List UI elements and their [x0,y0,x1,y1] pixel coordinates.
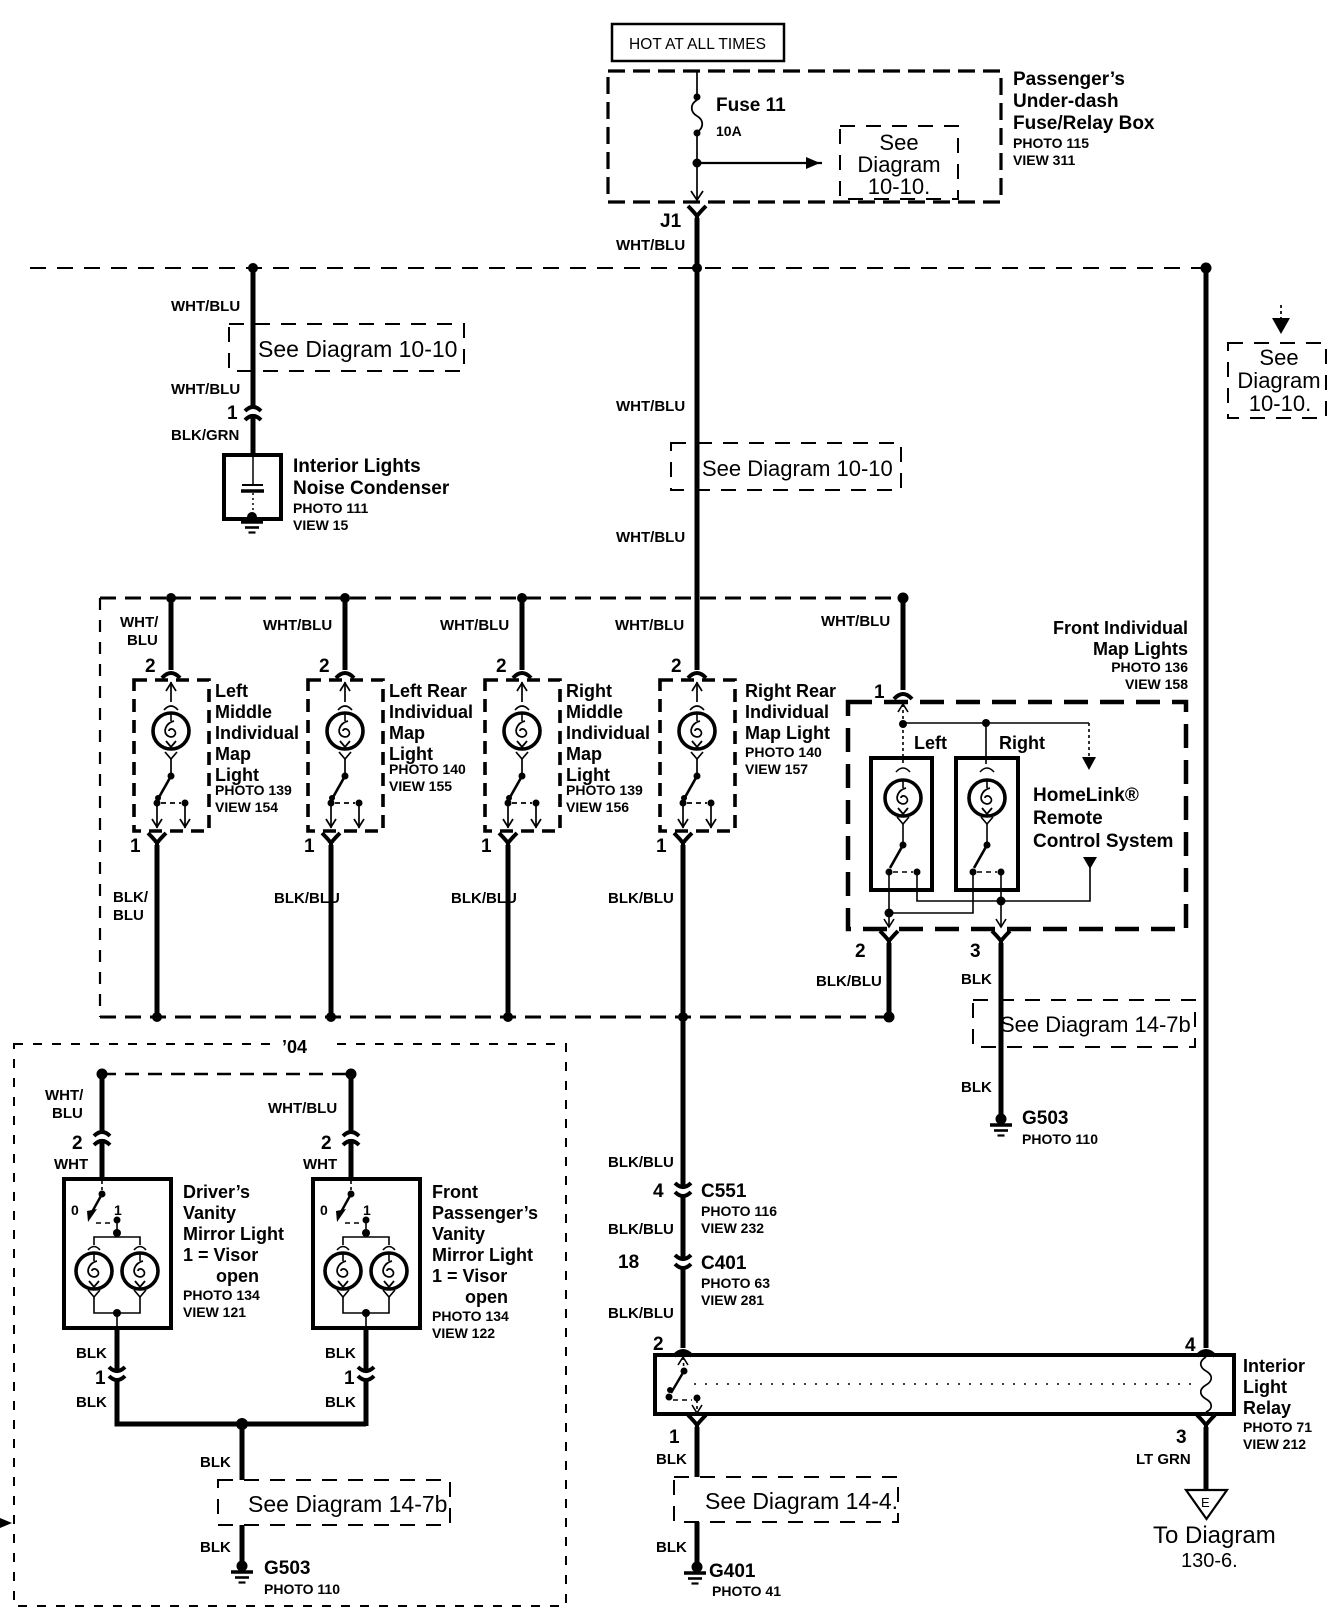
interior lights noise condenser C box [224,455,281,519]
svg-text:WHT/BLU: WHT/BLU [616,237,685,254]
svg-text:PHOTO 63: PHOTO 63 [701,1275,770,1291]
svg-text:Left Rear: Left Rear [389,681,467,701]
svg-text:Right: Right [566,681,612,701]
right rear map light caption [745,681,836,777]
wire WHT/BLU to passenger vanity [349,1074,354,1130]
wire BLK from driver vanity [115,1328,120,1369]
svg-text:VIEW 158: VIEW 158 [1125,676,1188,692]
svg-text:Interior: Interior [1243,1356,1305,1376]
svg-text:See Diagram 10-10: See Diagram 10-10 [702,456,893,481]
node joining lamp commons [885,909,894,918]
connector pin 2 left rear map light [336,673,354,678]
svg-text:Right Rear: Right Rear [745,681,836,701]
svg-text:Right: Right [999,733,1045,753]
node below lamps [362,1309,370,1317]
svg-text:2: 2 [72,1133,83,1154]
svg-text:WHT: WHT [54,1156,88,1173]
node to right lamp [982,719,990,727]
svg-text:BLK/BLU: BLK/BLU [451,890,517,907]
arrowhead at pin 2 exit [884,919,894,927]
left lamp internals [896,724,910,845]
node above lamps [113,1229,121,1237]
svg-text:To Diagram: To Diagram [1153,1522,1276,1549]
svg-text:See Diagram 14-7b: See Diagram 14-7b [1000,1012,1191,1037]
svg-text:PHOTO 111: PHOTO 111 [293,500,368,516]
passenger vanity caption [432,1182,538,1341]
'04 label (white backing) [276,1030,330,1058]
svg-text:4: 4 [653,1181,664,1202]
svg-text:See: See [1259,345,1298,370]
Driver's vanity mirror light box [64,1179,171,1328]
arrow into right See Diagram box [1272,305,1290,334]
svg-text:PHOTO 116: PHOTO 116 [701,1203,777,1219]
wire WHT/BLU to front map lights [901,598,906,690]
wire BLK/BLU from pin 2 to bus [887,943,892,1017]
svg-text:Left: Left [914,733,947,753]
svg-text:Middle: Middle [215,702,272,722]
svg-text:1: 1 [363,1202,371,1218]
horizontal dashed bus at y=268 [30,267,1206,269]
See Diagram 14-7b reference (HomeLink ground) [973,1000,1195,1047]
junction node center [692,263,702,273]
wire BLK from relay pin 1 [695,1427,700,1477]
svg-text:Individual: Individual [566,723,650,743]
svg-text:Front Individual: Front Individual [1053,618,1188,638]
wire down to ground bus [364,1379,369,1426]
G503 label [1022,1108,1098,1147]
svg-text:Relay: Relay [1243,1398,1291,1418]
node driver vanity tap [97,1069,108,1080]
svg-text:BLK: BLK [76,1345,107,1362]
svg-text:BLK/BLU: BLK/BLU [608,1305,674,1322]
relay coil [1201,1357,1212,1412]
svg-text:4: 4 [1185,1335,1196,1356]
wire BLK/BLU between C551 and C401 [681,1195,686,1257]
svg-text:WHT/BLU: WHT/BLU [440,617,509,634]
svg-text:WHT/BLU: WHT/BLU [616,398,685,415]
pin 1 connector left middle map light [148,833,166,849]
svg-text:PHOTO 115: PHOTO 115 [1013,135,1089,151]
svg-text:Interior Lights: Interior Lights [293,456,421,477]
svg-text:Individual: Individual [215,723,299,743]
svg-text:BLK/BLU: BLK/BLU [608,1154,674,1171]
svg-text:PHOTO 140: PHOTO 140 [745,744,822,760]
svg-text:3: 3 [1176,1427,1187,1448]
wire: right lamp switched to pin 3 [996,872,1006,927]
wire: left lamp switched to control [917,867,1090,901]
svg-text:2: 2 [321,1133,332,1154]
svg-text:Map: Map [389,723,425,743]
svg-text:1: 1 [114,1202,122,1218]
relay internal dotted link [694,1383,1197,1385]
Front Individual Map Lights caption [1053,618,1188,692]
svg-text:C551: C551 [701,1181,747,1202]
svg-text:Mirror Light: Mirror Light [432,1245,533,1265]
junction node left branch [248,263,258,273]
svg-text:See Diagram 14-7b: See Diagram 14-7b [248,1491,447,1517]
wire BLK/BLU from right middle map light [506,845,511,1017]
svg-text:VIEW 212: VIEW 212 [1243,1436,1306,1452]
svg-text:Driver’s: Driver’s [183,1182,250,1202]
node: left rear map light tap [340,593,350,603]
ground G401 [684,1562,706,1584]
left branch wire down to connector 1 [251,268,256,406]
svg-text:G401: G401 [709,1561,756,1582]
fuse 11 value label [716,95,786,139]
svg-text:Vanity: Vanity [432,1224,485,1244]
svg-text:VIEW 156: VIEW 156 [566,799,629,815]
svg-text:Individual: Individual [389,702,473,722]
svg-text:WHT/BLU: WHT/BLU [268,1100,337,1117]
connector pin 1 passenger vanity [358,1367,374,1380]
svg-text:1: 1 [874,682,885,703]
svg-text:2: 2 [319,656,330,677]
lamp: Right Middle Individual Map Light [485,680,560,831]
svg-text:PHOTO 110: PHOTO 110 [264,1581,340,1597]
pin 1 connector left rear map light [322,833,340,849]
svg-text:BLK: BLK [961,971,992,988]
svg-text:LT GRN: LT GRN [1136,1451,1191,1468]
connector pin 3 HomeLink [992,931,1010,947]
svg-text:BLK/: BLK/ [113,889,149,906]
svg-text:BLK: BLK [325,1345,356,1362]
See Diagram 10-10 reference (right) [1228,343,1326,418]
svg-text:WHT: WHT [303,1156,337,1173]
svg-text:1 = Visor: 1 = Visor [183,1245,258,1265]
svg-text:1: 1 [130,836,141,857]
relay switch [666,1368,703,1414]
svg-text:1: 1 [481,836,492,857]
connector pin 2 passenger vanity [343,1132,359,1145]
connector pin 2 left middle map light [162,673,180,678]
svg-text:Remote: Remote [1033,808,1103,829]
svg-text:1: 1 [669,1427,680,1448]
wire BLK/BLU from left middle map light [155,845,160,1017]
interior light relay box [655,1355,1234,1414]
wire: left lamp common to pin 2 [888,872,890,926]
See Diagram 10-10 reference (left branch) [229,324,464,371]
pin 1 connector right middle map light [499,833,517,849]
node: right middle map light tap [517,593,527,603]
wire BLK from pin 3 [999,943,1004,1118]
noise condenser caption [293,456,450,533]
svg-text:2: 2 [145,656,156,677]
pin 1 connector right rear map light [674,833,692,849]
node passenger vanity tap [346,1069,357,1080]
svg-text:Front: Front [432,1182,478,1202]
svg-text:PHOTO 71: PHOTO 71 [1243,1419,1312,1435]
svg-text:Light: Light [1243,1377,1287,1397]
connector pin 2 HomeLink [880,931,898,947]
svg-text:Map Lights: Map Lights [1093,639,1188,659]
wire into passenger vanity [349,1139,354,1180]
connector relay pin 1 [688,1415,706,1431]
right lamp bulb [969,780,1005,816]
node pin2 on bottom bus [884,1012,895,1023]
driver vanity caption [183,1182,284,1320]
svg-text:WHT/BLU: WHT/BLU [171,298,240,315]
passenger vanity switch [320,1181,371,1224]
connector C401 [675,1255,691,1268]
right lamp switch [970,842,1005,876]
junction on fuse output [693,159,702,168]
ground G503 (vanity) [231,1561,253,1583]
svg-text:WHT/: WHT/ [45,1087,84,1104]
control return arrow [1083,857,1097,869]
page edge arrow marker [0,1518,12,1528]
G503 vanity label [264,1558,340,1597]
right branch main wire [1204,268,1209,1348]
passenger vanity lamp pair wiring [337,1220,395,1328]
svg-text:WHT/BLU: WHT/BLU [615,617,684,634]
svg-text:Vanity: Vanity [183,1203,236,1223]
wire BLK to G401 [695,1522,700,1566]
svg-text:WHT/: WHT/ [120,614,159,631]
capacitor element inside condenser [241,457,264,515]
map lights dashed enclosure (top edge) [100,597,903,600]
wire arrow to See Diagram 10-10 [697,157,822,169]
svg-text:open: open [465,1287,508,1307]
node below lamps [113,1309,121,1317]
wire into driver vanity [100,1139,105,1180]
wire BLK/BLU from right rear map light down [681,845,686,1185]
dotted drop with arrow to control [1082,723,1096,770]
svg-text:BLU: BLU [113,907,144,924]
right lamp internals [980,723,994,845]
svg-text:VIEW 15: VIEW 15 [293,517,348,533]
lamp: Right Rear Individual Map Light [660,680,735,831]
svg-text:2: 2 [671,656,682,677]
svg-text:1: 1 [227,403,238,424]
svg-text:Map: Map [566,744,602,764]
wire from fuse to box bottom with arrow [691,133,703,200]
fuse/relay box caption [1013,69,1155,168]
svg-text:PHOTO 134: PHOTO 134 [183,1287,260,1303]
driver vanity bulb left [76,1253,112,1289]
svg-text:See Diagram 14-4.: See Diagram 14-4. [705,1488,898,1514]
See Diagram 10-10 reference (inside fuse box) [840,126,958,199]
connector J1 [688,206,706,222]
fuse 11 element [692,94,703,137]
svg-text:BLK: BLK [656,1539,687,1556]
connector relay pin 2 [674,1351,692,1356]
'04 model dashed enclosure [14,1044,566,1606]
node on bottom bus (right rear) [678,1012,688,1022]
svg-text:Middle: Middle [566,702,623,722]
svg-text:J1: J1 [660,211,682,232]
wire WHT/BLU to driver vanity [100,1074,105,1130]
svg-text:VIEW 154: VIEW 154 [215,799,278,815]
connector relay pin 4 [1197,1351,1215,1356]
node: front map lights tap [898,593,909,604]
svg-text:’04: ’04 [282,1037,307,1057]
left lamp bulb [885,780,921,816]
svg-text:VIEW 281: VIEW 281 [701,1292,764,1308]
svg-text:PHOTO 140: PHOTO 140 [389,761,466,777]
svg-text:PHOTO 41: PHOTO 41 [712,1583,781,1599]
C401 caption [701,1253,770,1308]
node where right lamp switched line crosses [997,897,1006,906]
svg-text:2: 2 [653,1334,664,1355]
wire WHT/BLU to right rear map light [695,598,700,670]
svg-text:C401: C401 [701,1253,747,1274]
svg-text:VIEW 155: VIEW 155 [389,778,452,794]
HomeLink left lamp unit box [871,758,932,890]
svg-text:2: 2 [855,941,866,962]
svg-text:1: 1 [95,1368,106,1389]
svg-text:1: 1 [656,836,667,857]
driver vanity lamp pair wiring [88,1220,146,1328]
svg-text:BLU: BLU [52,1105,83,1122]
left middle map light caption [215,681,299,815]
vanity feed dashed bus [102,1073,351,1076]
svg-text:VIEW 157: VIEW 157 [745,761,808,777]
junction node right branch [1201,263,1212,274]
svg-text:VIEW 121: VIEW 121 [183,1304,246,1320]
svg-text:See Diagram 10-10: See Diagram 10-10 [258,336,457,362]
wire BLK to vanity ground [240,1424,245,1480]
wire BLK below reference [240,1525,245,1564]
wire label WHT/ BLU [120,614,159,649]
svg-text:Left: Left [215,681,248,701]
svg-text:Under-dash: Under-dash [1013,91,1119,112]
svg-text:WHT/BLU: WHT/BLU [263,617,332,634]
svg-text:1 = Visor: 1 = Visor [432,1266,507,1286]
svg-text:WHT/BLU: WHT/BLU [821,613,890,630]
svg-text:BLK/BLU: BLK/BLU [608,890,674,907]
svg-text:Control System: Control System [1033,831,1173,852]
svg-text:VIEW 311: VIEW 311 [1013,152,1075,168]
wire WHT/BLU to left rear map light [343,598,348,670]
svg-text:PHOTO 110: PHOTO 110 [1022,1131,1098,1147]
condenser ground [241,512,263,533]
svg-text:Map Light: Map Light [745,723,830,743]
svg-text:Passenger’s: Passenger’s [1013,69,1125,90]
svg-text:1: 1 [304,836,315,857]
svg-text:HOT AT ALL TIMES: HOT AT ALL TIMES [629,36,766,53]
inline connector pin 1 (noise condenser) [245,407,261,420]
HomeLink caption [1033,785,1173,852]
C551 caption [701,1181,777,1236]
Passenger's Under-dash Fuse/Relay Box (dashed enclosure) [608,71,1001,202]
wire BLK/BLU from left rear map light [329,845,334,1017]
node on bottom bus [326,1012,336,1022]
fuse F11 feed wire [696,72,698,97]
svg-text:1: 1 [344,1368,355,1389]
svg-text:BLK: BLK [200,1539,231,1556]
svg-text:PHOTO 134: PHOTO 134 [432,1308,509,1324]
svg-text:18: 18 [618,1252,639,1273]
See Diagram 14-7b reference (vanity ground) [218,1480,450,1525]
node inside HomeLink [899,720,907,728]
svg-text:BLK/BLU: BLK/BLU [608,1221,674,1238]
driver vanity bulb right [122,1253,158,1289]
HomeLink right lamp unit box [956,758,1018,890]
passenger vanity bulb left [325,1253,361,1289]
svg-text:Diagram: Diagram [1237,368,1320,393]
svg-text:130-6.: 130-6. [1181,1550,1238,1572]
HOT AT ALL TIMES label box [612,24,784,61]
connector pin 1 front map lights [894,694,912,699]
map lights dashed enclosure (bottom edge) [100,1016,888,1019]
entry arrow inside HomeLink box [898,704,908,723]
wire down and across to ground junction [117,1379,366,1424]
left rear map light caption [389,681,473,794]
connector pin 2 right rear map light [688,673,706,678]
vanity ground junction node [236,1418,248,1430]
svg-text:Noise Condenser: Noise Condenser [293,478,450,499]
connector pin 2 right middle map light [513,673,531,678]
map lights dashed enclosure (left edge) [99,598,101,1017]
svg-text:Fuse/Relay Box: Fuse/Relay Box [1013,113,1155,134]
svg-text:WHT/BLU: WHT/BLU [171,381,240,398]
svg-text:Fuse 11: Fuse 11 [716,95,786,116]
connector relay pin 3 [1197,1415,1215,1431]
node: left middle map light tap [166,593,176,603]
svg-text:G503: G503 [264,1558,310,1579]
svg-text:BLK: BLK [961,1079,992,1096]
node on bottom bus [503,1012,513,1022]
svg-text:HomeLink®: HomeLink® [1033,785,1139,806]
svg-text:BLK: BLK [76,1394,107,1411]
connector pin 1 driver vanity [109,1367,125,1380]
wire to noise condenser [251,414,256,456]
svg-text:0: 0 [71,1202,79,1218]
lamp: Left Middle Individual Map Light [134,680,209,831]
svg-text:BLK: BLK [325,1394,356,1411]
svg-text:Individual: Individual [745,702,829,722]
svg-text:WHT/BLU: WHT/BLU [616,529,685,546]
svg-text:BLK/GRN: BLK/GRN [171,427,239,444]
right middle map light caption [566,681,650,815]
svg-text:0: 0 [320,1202,328,1218]
svg-text:PHOTO 139: PHOTO 139 [215,782,292,798]
node above lamps [362,1229,370,1237]
internal distribution wire [903,722,1089,724]
See Diagram 10-10 reference (center) [671,443,901,490]
svg-text:PHOTO 139: PHOTO 139 [566,782,643,798]
ground G503 (HomeLink) [990,1114,1012,1136]
interior light relay caption [1243,1356,1312,1452]
wire label BLK/ BLU [113,889,149,924]
HomeLink dashed enclosure [848,702,1186,929]
svg-text:open: open [216,1266,259,1286]
svg-text:BLK: BLK [656,1451,687,1468]
svg-text:3: 3 [970,941,981,962]
main feed wire J1 down to bus [695,218,700,270]
left lamp switch [886,842,921,876]
wire BLK/BLU to relay pin 2 [681,1267,686,1348]
center wire bus to map lights [695,268,700,600]
wire WHT/BLU to left middle map light [169,598,174,670]
svg-text:10A: 10A [716,123,742,139]
svg-text:Passenger’s: Passenger’s [432,1203,538,1223]
wire BLK from passenger vanity [364,1328,369,1369]
wire: right lamp common jumper [889,872,973,913]
svg-text:10-10.: 10-10. [1249,391,1311,416]
Front passenger's vanity mirror light box [313,1179,420,1328]
connector C551 [675,1183,691,1196]
off-page connector E [1186,1490,1227,1519]
driver vanity switch [71,1181,122,1224]
wire WHT/BLU to right middle map light [520,598,525,670]
See Diagram 14-4 reference [674,1477,898,1522]
connector pin 2 driver vanity [94,1132,110,1145]
svg-text:BLK/BLU: BLK/BLU [274,890,340,907]
lamp: Left Rear Individual Map Light [308,680,383,831]
svg-text:2: 2 [496,656,507,677]
To Diagram 130-6 caption [1153,1522,1276,1572]
